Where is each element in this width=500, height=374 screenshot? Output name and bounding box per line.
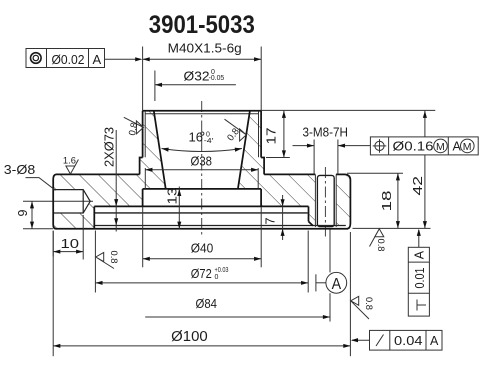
svg-text:3-M8-7H: 3-M8-7H — [303, 126, 349, 140]
svg-text:0.8: 0.8 — [108, 251, 119, 264]
flange bottom-right round corner — [347, 224, 350, 229]
svg-text:A: A — [430, 334, 439, 348]
dimension M40X1.5-6g — [143, 41, 262, 111]
M8 tapped hole minor profile — [317, 175, 334, 226]
svg-text:3901-5033: 3901-5033 — [149, 11, 255, 39]
svg-text:Ø32: Ø32 — [184, 70, 210, 84]
svg-text:42: 42 — [411, 176, 425, 196]
dimension o40 — [143, 207, 262, 267]
part outline: boss top face — [143, 110, 262, 112]
svg-text:-0.05: -0.05 — [209, 75, 225, 82]
datum A flag on bottom face — [417, 229, 421, 248]
svg-text:2XØ73: 2XØ73 — [103, 127, 117, 167]
svg-text:M: M — [436, 141, 445, 153]
dimension 18 — [347, 173, 403, 228]
thread minor left — [144, 111, 146, 157]
flange top-right round corner — [345, 174, 350, 180]
bore o40 left edge — [142, 189, 144, 207]
dimension 13 — [166, 187, 182, 230]
roughness 1.6 on flange top — [63, 156, 79, 175]
svg-text:Ø40: Ø40 — [191, 242, 214, 256]
dimension 16 degree taper — [162, 131, 242, 152]
FCF concentricity box top-left — [26, 49, 142, 68]
svg-text:Ø0.02: Ø0.02 — [52, 52, 85, 67]
roughness 0.8 on o72 extension — [96, 251, 119, 269]
recess line L3 — [95, 212, 308, 214]
flange top left — [56, 173, 140, 175]
dimension 7 — [264, 195, 285, 240]
svg-text:A: A — [412, 250, 426, 259]
svg-text:0: 0 — [215, 274, 219, 281]
svg-text:-4′: -4′ — [204, 138, 214, 145]
M8 tapped hole major right — [335, 174, 337, 227]
svg-text:A: A — [332, 276, 342, 293]
svg-text:13: 13 — [166, 187, 180, 204]
svg-text:3-Ø8: 3-Ø8 — [4, 163, 36, 177]
dimension 3-M8-7H — [293, 126, 371, 175]
M8 hole centerline — [324, 167, 326, 237]
thread relief step left — [140, 158, 143, 175]
svg-text:+0.03: +0.03 — [215, 267, 229, 274]
o8 hole drill face line — [82, 190, 84, 213]
recess top L2 — [94, 205, 308, 207]
svg-text:9: 9 — [16, 210, 30, 217]
leader 3-o8 — [4, 163, 56, 190]
dimension o32 — [155, 69, 236, 101]
dimension 17 — [265, 111, 290, 158]
main centerline — [201, 101, 203, 236]
FCF inclination bottom right — [351, 330, 442, 350]
svg-text:A: A — [93, 52, 102, 67]
svg-text:0.8: 0.8 — [375, 239, 386, 252]
datum A circle under flange — [316, 272, 347, 293]
recess right edge — [308, 206, 310, 221]
svg-text:M: M — [463, 141, 472, 153]
thread relief step right — [261, 158, 264, 175]
dimension o72 — [95, 231, 308, 293]
cone bore left line — [154, 111, 166, 189]
M8 tapped hole major left — [314, 174, 316, 227]
roughness 0.8 on bottom face extension — [370, 229, 386, 252]
dimension o100 — [53, 231, 350, 356]
bore o40 right edge — [260, 189, 262, 207]
o8 radial hole outline — [54, 190, 90, 213]
bottom face extension line right — [353, 227, 431, 229]
svg-text:1.6: 1.6 — [63, 156, 76, 167]
flange top right with gap at M8 hole — [264, 173, 315, 175]
o8 hole centerline / 9-dim extension — [23, 200, 93, 202]
roughness 0.8 on o100 extension — [351, 296, 374, 319]
leader 2Xo73 — [103, 127, 119, 232]
svg-text:Ø38: Ø38 — [191, 155, 213, 169]
FCF position o0.16 — [370, 137, 478, 155]
cone bore right line — [238, 111, 250, 189]
hatch left flange section — [53, 111, 166, 229]
roughness 0.8 on cone right — [225, 119, 247, 143]
dimension 10 — [53, 215, 83, 260]
svg-text:18: 18 — [380, 190, 394, 211]
dimension o84 — [145, 230, 330, 322]
svg-text:7: 7 — [264, 218, 278, 225]
svg-text:Ø72: Ø72 — [191, 267, 212, 281]
svg-text:17: 17 — [265, 127, 279, 144]
hatch right flange section — [238, 111, 351, 228]
dimension 9 — [16, 201, 53, 229]
dimension o38 — [145, 155, 258, 189]
svg-text:10: 10 — [61, 237, 80, 251]
bore o40 top ledge L1 — [143, 188, 262, 190]
svg-text:Ø84: Ø84 — [196, 297, 218, 311]
flange right edge — [349, 180, 351, 224]
svg-text:Ø100: Ø100 — [171, 329, 208, 345]
thread OD right — [260, 111, 262, 158]
svg-text:0.8: 0.8 — [363, 297, 374, 310]
flange left edge — [52, 180, 54, 225]
svg-text:0.04: 0.04 — [394, 334, 423, 348]
svg-text:M40X1.5-6g: M40X1.5-6g — [168, 41, 242, 56]
dimension 42 — [261, 110, 435, 228]
thread OD left — [142, 111, 144, 158]
thread minor right — [258, 111, 260, 157]
flange bottom face — [56, 228, 348, 230]
flange top-left round corner — [53, 174, 56, 179]
recess right chamfer — [309, 222, 314, 226]
FCF perpendicularity vertical — [408, 247, 429, 316]
bottom groove line L4 — [94, 225, 345, 227]
roughness 0.8 on cone left — [124, 117, 144, 136]
svg-text:0.01: 0.01 — [413, 267, 427, 288]
recess left edge — [93, 206, 95, 228]
flange bottom-left round corner — [53, 225, 56, 229]
svg-text:Ø0.16: Ø0.16 — [393, 140, 434, 154]
thread chamfer line — [145, 113, 258, 115]
